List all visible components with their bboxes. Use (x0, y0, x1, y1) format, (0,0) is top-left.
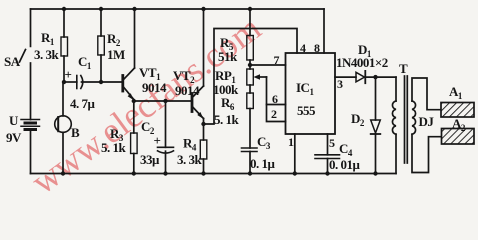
node R1 top rail junction (62, 7, 66, 11)
svg-text:5. 1k: 5. 1k (214, 112, 240, 127)
node R2 bottom VT1 base junction (99, 80, 103, 84)
svg-text:9014: 9014 (175, 83, 200, 98)
svg-text:DJ: DJ (419, 114, 435, 129)
svg-text:0. 01μ: 0. 01μ (329, 157, 361, 172)
capacitor C2 (165, 101, 167, 147)
transformer core (404, 76, 406, 163)
svg-text:9014: 9014 (142, 80, 167, 95)
node R3 ground junction (132, 171, 136, 175)
wire bottom rail (31, 173, 397, 175)
battery U 9V (21, 120, 40, 130)
svg-text:555: 555 (297, 103, 316, 118)
svg-text:3. 3k: 3. 3k (177, 152, 203, 167)
switch SA blade (20, 50, 26, 63)
node VT1 collector rail junction (132, 7, 136, 11)
wire pin2 (267, 105, 286, 122)
svg-text:0. 1μ: 0. 1μ (250, 156, 276, 171)
svg-text:3: 3 (337, 77, 343, 91)
svg-text:+: + (154, 133, 161, 148)
svg-text:3. 3k: 3. 3k (34, 47, 60, 62)
svg-text:T: T (399, 61, 408, 76)
svg-text:9V: 9V (6, 130, 22, 145)
wire pin8 drop from rail (323, 9, 325, 53)
svg-text:5. 1k: 5. 1k (101, 140, 127, 155)
node C2 ground junction (163, 171, 167, 175)
svg-text:4: 4 (300, 41, 306, 55)
wire pin6 (267, 77, 286, 105)
wire R2 column (100, 9, 102, 36)
svg-text:2: 2 (271, 107, 277, 121)
svg-text:+: + (65, 67, 72, 82)
wire reset pin4 path (204, 29, 298, 125)
wire R3 column (133, 101, 135, 133)
resistor R6 (247, 93, 254, 109)
node pin1 ground junction (293, 171, 297, 175)
node C2 top junction (163, 99, 167, 103)
svg-text:SA: SA (4, 54, 21, 69)
svg-text:1: 1 (288, 135, 294, 149)
node mic ground junction (61, 171, 65, 175)
wire emitter rail VT1->VT2 (134, 100, 192, 102)
node VT2 emitter junction (201, 122, 205, 126)
wire pin7 (250, 64, 286, 66)
wire left column lower (30, 63, 32, 120)
wire secondary bottom to A2 (412, 134, 442, 172)
wire pin3 (335, 76, 356, 78)
node R1 bottom C1 junction (62, 80, 66, 84)
transistor VT1 (121, 76, 124, 92)
wire left column upper (30, 9, 32, 46)
node VT1 emitter junction (132, 99, 136, 103)
svg-text:1M: 1M (107, 47, 125, 62)
transistor VT1 emitter arrow (128, 93, 134, 100)
resistor R3 (131, 133, 138, 154)
wire battery negative to bottom rail (30, 130, 32, 174)
wire pin5 (327, 134, 329, 155)
potentiometer RP1 (247, 69, 254, 85)
transformer T primary winding (392, 101, 396, 134)
svg-text:8: 8 (314, 41, 320, 55)
microphone B column (62, 82, 64, 116)
capacitor C1 (64, 81, 77, 83)
transistor VT2 (191, 94, 194, 112)
svg-text:5: 5 (329, 136, 335, 150)
node D2 ground junction (373, 171, 377, 175)
wire R1 column (63, 9, 65, 37)
diode D1 (356, 72, 365, 82)
svg-text:33μ: 33μ (140, 152, 160, 167)
svg-text:U: U (9, 113, 19, 128)
node R2 top rail junction (99, 7, 103, 11)
resistor R2 (98, 36, 105, 55)
wire secondary top to A1 (412, 78, 441, 110)
watermark www.elecfans.com (24, 8, 268, 202)
capacitor C3 (242, 147, 258, 149)
IC1 555 timer box (286, 53, 336, 134)
resistor R1 (61, 37, 68, 56)
svg-text:B: B (71, 125, 80, 140)
transformer DJ secondary winding (412, 101, 416, 134)
svg-text:1N4001×2: 1N4001×2 (336, 55, 388, 70)
electrode A2 (442, 129, 475, 145)
svg-text:7: 7 (274, 53, 280, 67)
diode D2 (375, 77, 377, 120)
node VT2 collector rail junction (201, 7, 205, 11)
wire to transformer primary (395, 77, 397, 101)
node R5 top rail junction (248, 7, 252, 11)
wire pin1 (294, 134, 296, 174)
svg-text:6: 6 (272, 92, 278, 106)
capacitor C4 (315, 154, 340, 156)
wire R5 column (249, 9, 251, 36)
svg-text:51k: 51k (218, 49, 238, 64)
microphone B (55, 116, 72, 133)
node D1 cathode D2 junction (373, 75, 377, 79)
resistor R4 (200, 140, 207, 159)
electrode A1 (441, 103, 474, 118)
node C3 ground junction (248, 171, 252, 175)
wire top rail (31, 8, 325, 10)
resistor R5 (247, 36, 254, 61)
transistor VT2 emitter arrow (197, 112, 203, 119)
node C4 ground junction (325, 171, 329, 175)
node pin7 R5 RP1 junction (248, 63, 252, 67)
potentiometer RP1 wiper arrow (254, 74, 261, 80)
node R4 ground junction (201, 171, 205, 175)
svg-text:4. 7μ: 4. 7μ (70, 96, 96, 111)
